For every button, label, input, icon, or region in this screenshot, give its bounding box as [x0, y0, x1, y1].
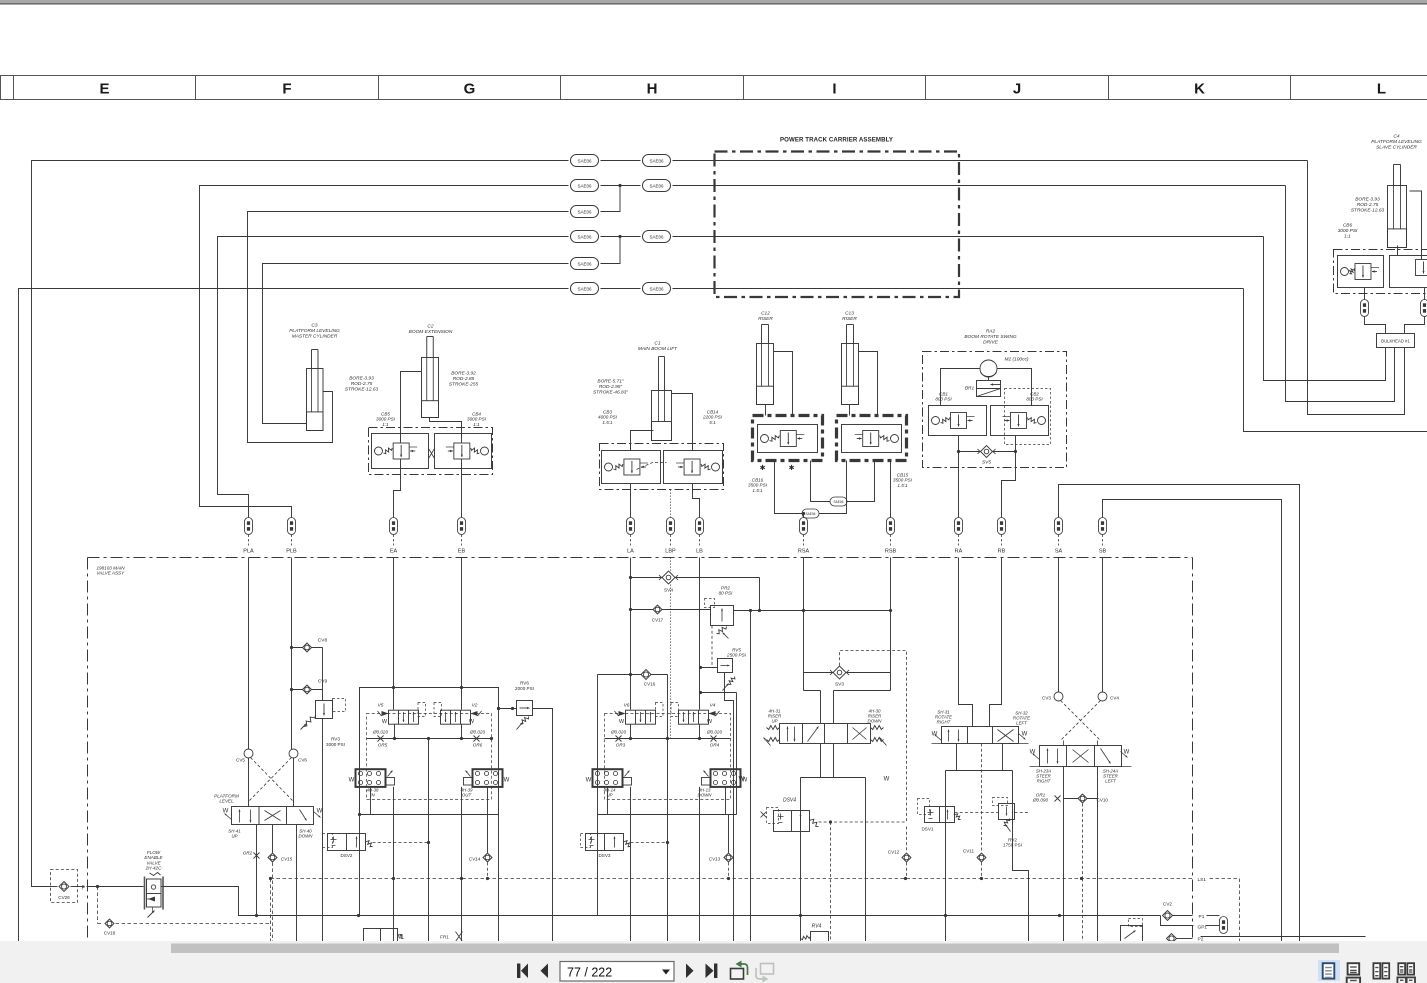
svg-text:DRIVE: DRIVE: [983, 339, 998, 345]
wire row5 junction to row4: [601, 235, 622, 264]
check CV11: [963, 744, 986, 879]
cylinder C1 main boom lift: [593, 341, 678, 441]
svg-text:ROD-2.75: ROD-2.75: [351, 381, 373, 387]
layout icon two pages: [1373, 963, 1389, 978]
svg-text:SAE06: SAE06: [577, 209, 592, 214]
wire C12 base: [765, 405, 767, 416]
flow enable valve 2H-42C: [144, 850, 163, 918]
wire SAE06 row5 to C3 base: [263, 264, 569, 424]
svg-text:BORE-5.71″: BORE-5.71″: [597, 379, 624, 385]
solenoid coil 4H-13 DOWN: [698, 769, 748, 797]
wire C13 base: [849, 405, 851, 416]
svg-text:G: G: [464, 81, 476, 98]
svg-text:CV17: CV17: [652, 618, 664, 623]
svg-text:OR5: OR5: [378, 743, 388, 748]
svg-text:SAE06: SAE06: [649, 286, 664, 291]
svg-text:DOWN: DOWN: [299, 834, 314, 839]
grid reference header row: [1, 76, 1427, 100]
pilot dashed box EA/EB group: [367, 714, 492, 800]
svg-text:800 PSI: 800 PSI: [935, 397, 952, 402]
wire RB to port: [1002, 450, 1018, 518]
svg-text:OR3: OR3: [616, 743, 626, 748]
check CV17: [631, 605, 711, 623]
top window bar: [0, 0, 1427, 3]
wire SB riser-right nest: [1103, 500, 1282, 942]
check CV6: [289, 749, 307, 763]
valve SH-31/SH-32 rotate right/left: [932, 710, 1031, 744]
orifice OR3: [610, 730, 627, 748]
svg-text:Ø0.020: Ø0.020: [610, 730, 627, 735]
valve DSV3: [581, 834, 670, 859]
svg-text:2000 PSI: 2000 PSI: [515, 686, 534, 691]
cylinder C3 platform leveling master: [289, 323, 378, 431]
svg-text:BR1: BR1: [965, 386, 975, 392]
svg-text:I: I: [832, 81, 836, 98]
brake BR1: [965, 381, 1001, 397]
svg-text:CV18: CV18: [104, 931, 116, 936]
svg-text:CV15: CV15: [281, 857, 293, 862]
wire coils to bottom: [371, 787, 488, 942]
port PLA: [243, 518, 254, 555]
check CV12: [888, 827, 911, 879]
svg-text:W: W: [619, 719, 625, 725]
svg-text:CV16: CV16: [644, 682, 656, 687]
svg-text:1.5:1: 1.5:1: [752, 488, 763, 493]
wire EB into section: [460, 558, 463, 710]
svg-text:Ø0.020: Ø0.020: [372, 730, 389, 735]
label 198103 MAIN VALVE ASSY: [97, 566, 126, 576]
check CV10: [1064, 794, 1109, 942]
svg-text:C2: C2: [427, 324, 433, 330]
wire PLB down to CV6: [291, 558, 293, 750]
wire CV6 to platform valve: [293, 758, 295, 807]
svg-text:DSV1: DSV1: [921, 827, 933, 832]
riser crossover hose upper (SAE06): [811, 461, 875, 507]
svg-text:LEFT: LEFT: [1016, 721, 1027, 726]
motor M2 (100cc): [980, 357, 1029, 378]
wire C2 base to CB4: [430, 418, 462, 443]
svg-text:LS1: LS1: [1198, 877, 1207, 883]
svg-text:P1: P1: [1199, 914, 1205, 920]
svg-text:LEFT: LEFT: [1105, 779, 1116, 784]
svg-text:STROKE-12.63: STROKE-12.63: [345, 386, 379, 392]
svg-text:CV4: CV4: [1110, 696, 1119, 701]
svg-text:RV4: RV4: [812, 924, 822, 930]
check CV15: [268, 825, 293, 942]
svg-text:J: J: [1013, 81, 1021, 98]
port RSA: [798, 518, 810, 555]
svg-text:SAE06: SAE06: [649, 183, 664, 188]
svg-text:LA: LA: [627, 549, 634, 555]
shuttle SV5: [959, 436, 1016, 466]
wire row1 col1-col2 and to right: [601, 160, 1308, 162]
BULKHEAD #1: [1365, 317, 1425, 348]
svg-text:C13: C13: [845, 311, 854, 317]
port LBP: [665, 518, 676, 555]
wire C12 rod side: [774, 352, 793, 416]
port P2 line (bottom cut): [1167, 934, 1366, 944]
svg-text:Ø0.090: Ø0.090: [1032, 798, 1049, 803]
svg-text:Ø0.020: Ø0.020: [706, 730, 723, 735]
wire RSA feed: [802, 512, 805, 518]
svg-text:1750 PSI: 1750 PSI: [1003, 843, 1022, 848]
pilot dashed SV3 to CV12: [840, 651, 907, 823]
svg-text:SAE06: SAE06: [649, 234, 664, 239]
check CV8: [290, 638, 328, 653]
port connector under CB6 right: [1421, 288, 1427, 317]
section loop LB side: [699, 691, 737, 815]
toolbar previous-view button: [731, 961, 748, 980]
svg-text:SV5: SV5: [982, 460, 991, 466]
svg-text:EA: EA: [390, 549, 398, 555]
svg-text:RISER: RISER: [842, 316, 857, 322]
toolbar next-view button (disabled): [756, 964, 774, 983]
svg-text:PLA: PLA: [243, 549, 254, 555]
svg-text:UP: UP: [771, 719, 777, 724]
valve near GP1 (bottom cut): [1121, 919, 1143, 942]
svg-text:CV14: CV14: [469, 857, 481, 862]
svg-text:E: E: [99, 81, 109, 98]
horizontal scrollbar thumb: [171, 944, 1339, 954]
cylinder C12 riser: [757, 311, 774, 405]
check CV13: [709, 815, 733, 879]
wire RSB into section: [890, 558, 892, 691]
riser tie line: [760, 609, 893, 612]
wire SAE06 row4 to PLA: [218, 237, 569, 518]
svg-text:STROKE-46.83″: STROKE-46.83″: [593, 389, 628, 395]
svg-text:SAE06: SAE06: [577, 261, 592, 266]
wire C4 rod side to valve: [1410, 191, 1422, 260]
cylinder C2 boom extension: [409, 324, 479, 418]
198103 main valve assembly dashed boundary: [88, 558, 1193, 942]
toolbar page number input 77 / 222: [560, 962, 674, 982]
svg-text:DSV4: DSV4: [783, 798, 796, 804]
svg-text:RISER: RISER: [758, 316, 773, 322]
svg-text:ROD-2.75: ROD-2.75: [1357, 202, 1379, 208]
svg-text:CV5: CV5: [236, 758, 245, 763]
port LA: [627, 518, 635, 555]
shuttle SV4: [631, 571, 760, 594]
solenoid valve V2: [434, 703, 482, 726]
wire SA into section: [1058, 558, 1060, 693]
valve CB16 riser counterbalance (heavy box): [748, 416, 822, 493]
wire SAE06 row1 to P supply (left drop): [32, 161, 569, 887]
svg-text:RA: RA: [955, 549, 963, 555]
svg-text:CV8: CV8: [318, 638, 328, 644]
wire PLA down to CV5: [248, 558, 250, 750]
port PLB: [286, 518, 297, 555]
valve platform level (SH-41/SH-40): [214, 794, 323, 839]
svg-text:DOWN: DOWN: [868, 719, 883, 724]
wire SB into section: [1102, 558, 1104, 693]
svg-text:W: W: [504, 778, 510, 784]
svg-text:PLB: PLB: [286, 549, 297, 555]
shuttle SV3: [804, 666, 891, 688]
valve DSV4: [761, 798, 819, 832]
svg-text:OR2: OR2: [243, 851, 253, 856]
svg-text:W: W: [349, 778, 355, 784]
relief RV6 (2000 PSI): [497, 681, 553, 942]
check CV14: [469, 815, 492, 879]
svg-text:800 PSI: 800 PSI: [1026, 397, 1043, 402]
valve CB15 riser counterbalance (heavy box): [837, 416, 913, 488]
solenoid coil 4H-14 UP: [586, 769, 632, 797]
pilot cross CV3-CV4 (dashed X): [1061, 701, 1101, 746]
pilot cross CV5-CV6 (dashed X): [250, 758, 293, 801]
wire row6 to C4 valve right side (bottom run): [1244, 289, 1427, 432]
LS1 load sense dashed rail: [269, 877, 1240, 942]
svg-text:OUT: OUT: [462, 793, 472, 798]
svg-text:BOOM ROTATE SWING: BOOM ROTATE SWING: [964, 334, 1017, 340]
orifice OR6: [469, 730, 486, 748]
relief RV4 (bottom cut): [801, 924, 829, 942]
pilot dashed box LA/LB group: [605, 714, 731, 800]
check CV3: [1042, 692, 1063, 701]
wire row6 col1-col2 and to right: [601, 288, 1244, 290]
port SB: [1099, 518, 1107, 555]
wire CB4 to EB port: [461, 459, 463, 518]
svg-text:SAE06: SAE06: [577, 286, 592, 291]
pilot wire LBP (dotted) into section: [670, 558, 672, 739]
wire LB into section: [699, 558, 701, 710]
section loop rectangle (EA/EB): [358, 688, 500, 916]
svg-text:OR4: OR4: [710, 743, 720, 748]
toolbar next-page button: [686, 964, 694, 979]
svg-text:V2: V2: [472, 703, 478, 709]
check CV9: [290, 679, 328, 695]
svg-text:W: W: [739, 777, 745, 783]
orifice OR4: [706, 730, 723, 748]
wire riser valve to lower loop: [801, 744, 866, 942]
valve 4H-31/4H-30 riser up/down: [739, 709, 890, 783]
svg-text:SAE06: SAE06: [649, 158, 664, 163]
orifice rail EA/EB: [367, 724, 494, 941]
check CV2: [1163, 902, 1193, 921]
wire RSB feed: [890, 461, 892, 518]
svg-text:V6: V6: [624, 703, 630, 709]
wire CB3 to LA port: [630, 484, 632, 518]
check CV26 (inlet): [51, 870, 86, 903]
svg-text:CV11: CV11: [963, 849, 975, 854]
svg-text:POWER TRACK CARRIER ASSEMBLY: POWER TRACK CARRIER ASSEMBLY: [780, 137, 893, 144]
svg-text:Ø0.020: Ø0.020: [469, 730, 486, 735]
solenoid valve V5: [378, 703, 426, 726]
svg-text:W: W: [707, 719, 713, 725]
orifice OR2: [243, 825, 260, 916]
orifice OR1: [1032, 767, 1064, 942]
svg-text:K: K: [1194, 81, 1205, 98]
svg-text:SV3: SV3: [835, 682, 844, 688]
svg-text:RB: RB: [998, 549, 1006, 555]
svg-text:1.5:1: 1.5:1: [897, 483, 908, 488]
valve DSV2: [323, 834, 431, 859]
wire row1 to bulkhead #1 (right nest): [1308, 161, 1405, 415]
svg-text:CB6: CB6: [1343, 223, 1353, 229]
layout icon continuous scrolling: [1348, 963, 1360, 974]
relief RV3 (3000 PSI): [301, 648, 346, 942]
svg-text:3000 PSI: 3000 PSI: [326, 742, 345, 747]
svg-text:SAE06: SAE06: [577, 183, 592, 188]
port EB: [458, 518, 466, 555]
svg-text:BORE-3.93: BORE-3.93: [1355, 197, 1380, 203]
svg-text:✱: ✱: [789, 464, 795, 472]
wire CV5 to platform valve: [248, 758, 250, 807]
svg-text:STROKE-12.63: STROKE-12.63: [1351, 207, 1385, 213]
wire EA into section: [392, 558, 395, 710]
svg-text:W: W: [317, 809, 323, 815]
svg-text:DSV2: DSV2: [340, 853, 352, 858]
wire LA coils to bottom: [608, 787, 726, 942]
svg-text:SAE06: SAE06: [834, 500, 844, 504]
svg-text:FR1: FR1: [440, 935, 449, 940]
valve block CB5/CB4 (boom extension counterbalance): [369, 412, 493, 475]
relief RV2 (1750 PSI): [993, 798, 1022, 848]
valve bottom left (cut): [364, 929, 404, 942]
svg-text:SB: SB: [1099, 549, 1107, 555]
svg-text:SLAVE CYLINDER: SLAVE CYLINDER: [1376, 144, 1417, 150]
wire riser valve feeds: [804, 691, 891, 724]
pilot CV15 rail drop: [270, 879, 272, 942]
orifice rail LA/LB: [605, 724, 731, 941]
port connector under CB6 left: [1361, 288, 1369, 317]
wire SB branch down: [1097, 767, 1099, 942]
wire RA to port: [957, 450, 960, 518]
cylinder C13 riser: [842, 311, 859, 405]
wire RA into section: [959, 558, 973, 727]
pressure reducing PR2 (80 PSI): [705, 586, 760, 639]
layout icon single page (active): [1318, 960, 1340, 981]
svg-text:RA2: RA2: [986, 329, 996, 335]
wire row2 to bulkhead #1 (right nest): [1286, 186, 1395, 402]
wire SA riser-right nest: [1059, 485, 1300, 942]
solenoid coil 4H-38 IN: [349, 769, 395, 797]
svg-text:CV6: CV6: [298, 758, 307, 763]
svg-text:C4: C4: [1393, 134, 1399, 140]
svg-text:CV10: CV10: [1097, 798, 1109, 803]
svg-text:PLATFORM LEVELING: PLATFORM LEVELING: [289, 328, 340, 334]
wire CB5 to EA port: [394, 459, 401, 518]
svg-text:W: W: [223, 809, 229, 815]
svg-text:CV3: CV3: [1042, 696, 1051, 701]
wire CB14 to LB port: [693, 484, 700, 518]
wire row4 col1-col2 and to right: [601, 236, 1264, 238]
boom rotate swing drive RA2 assembly box: [923, 329, 1067, 468]
wire rotate valve to lower loop: [946, 744, 1029, 942]
svg-text:1:1: 1:1: [1344, 233, 1351, 239]
svg-text:SAE06: SAE06: [577, 234, 592, 239]
P supply line main run: [162, 887, 1161, 918]
svg-text:RIGHT: RIGHT: [937, 720, 951, 725]
svg-text:CV13: CV13: [709, 857, 721, 862]
port RSB: [885, 518, 897, 555]
pilot dashed inside swing box: [1005, 389, 1051, 445]
svg-text:L: L: [1377, 81, 1386, 98]
svg-text:2500 PSI: 2500 PSI: [726, 653, 747, 658]
orifice OR5: [372, 730, 389, 748]
svg-text:P: P: [82, 886, 86, 892]
svg-text:BULKHEAD #1: BULKHEAD #1: [1381, 339, 1410, 344]
wire SV4 drop to riser tie: [758, 578, 761, 613]
svg-text:M2 (100cc): M2 (100cc): [1005, 357, 1029, 363]
pilot dashed DSV4 to CV12: [819, 820, 907, 941]
check CV18 pilot branch: [98, 887, 271, 936]
valve CB2 (800 PSI): [991, 392, 1049, 436]
valve CB6 counterbalance (3000 PSI 1:1): [1334, 223, 1427, 294]
viewer bottom panel: [0, 941, 1427, 983]
svg-text:RSA: RSA: [798, 549, 810, 555]
svg-text:SAE06: SAE06: [806, 512, 816, 516]
svg-text:CV12: CV12: [888, 850, 900, 855]
check CV5: [236, 749, 253, 763]
pilot dashed DSV1-RV2 rail: [955, 812, 1029, 814]
port EA: [390, 518, 398, 555]
wire SAE06 row6 left drop to bottom: [19, 289, 569, 942]
port RA: [955, 518, 963, 555]
wire row3 junction to row2: [601, 184, 622, 212]
svg-text:LEVEL: LEVEL: [219, 799, 234, 804]
svg-text:80 PSI: 80 PSI: [719, 591, 734, 596]
toolbar last-page button: [706, 964, 718, 979]
wire C4 base to valve: [1397, 246, 1399, 256]
valve CB1 (800 PSI): [929, 392, 987, 436]
port LB: [696, 518, 704, 555]
svg-text:EB: EB: [458, 549, 466, 555]
svg-text:SAE06: SAE06: [577, 158, 592, 163]
svg-text:MASTER CYLINDER: MASTER CYLINDER: [292, 333, 338, 339]
svg-text:BORE-3.92: BORE-3.92: [451, 371, 476, 377]
svg-text:✱: ✱: [760, 464, 766, 472]
relief RV5 (2500 PSI): [699, 626, 747, 942]
svg-text:LB: LB: [696, 549, 703, 555]
toolbar previous-page button: [541, 964, 549, 979]
svg-text:C12: C12: [761, 311, 770, 317]
solenoid valve V4: [671, 703, 720, 726]
port RB: [998, 518, 1006, 555]
layout icon two pages continuous: [1398, 963, 1414, 974]
valve SH-23A/SH-24A steer right/left: [1030, 746, 1132, 784]
wire RB into section: [990, 558, 1002, 727]
wire platform valve right drop: [296, 825, 298, 942]
port P1: [1199, 914, 1220, 920]
gauge port GP1 connector: [1161, 916, 1228, 934]
valve FR1 (bottom cut): [440, 932, 462, 942]
svg-text:DSV3: DSV3: [598, 853, 610, 858]
svg-text:RSB: RSB: [885, 549, 897, 555]
svg-text:F: F: [282, 81, 291, 98]
svg-text:H: H: [647, 81, 658, 98]
svg-text:W: W: [884, 777, 890, 783]
port SA: [1055, 518, 1063, 555]
cylinder C4 platform leveling slave: [1351, 134, 1422, 248]
wire C2 rod side to CB5: [401, 372, 422, 443]
wire RSA into section: [803, 558, 805, 691]
svg-text:RIGHT: RIGHT: [1037, 779, 1051, 784]
riser crossover hose lower (SAE06): [775, 461, 847, 519]
svg-text:OR6: OR6: [473, 743, 483, 748]
wire motor to CB1/CB2: [941, 369, 1032, 406]
svg-text:77 / 222: 77 / 222: [567, 966, 612, 980]
svg-text:UP: UP: [231, 834, 237, 839]
SAE06 bulkhead fittings column 1: [571, 155, 599, 295]
svg-text:V5: V5: [378, 703, 384, 709]
svg-text:ROD-2.95″: ROD-2.95″: [599, 384, 623, 390]
svg-text:W: W: [1030, 750, 1036, 756]
P supply line to flow enable valve: [87, 885, 144, 888]
section loop LA side with CV16: [598, 670, 737, 916]
svg-text:RV3: RV3: [331, 737, 340, 742]
svg-text:VALVE ASSY: VALVE ASSY: [97, 571, 126, 576]
svg-text:LBP: LBP: [665, 549, 676, 555]
